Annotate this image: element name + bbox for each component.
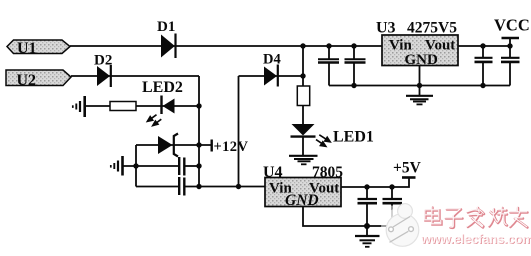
junction VCC terminal node [507,43,512,48]
junction C5 top on +5V net [364,184,369,189]
svg-text:4275V5: 4275V5 [407,20,457,37]
wire capacitor C5 bottom lead [366,204,368,226]
wire vertical x=238.5 from D4 anode down to U4 Vin net [238,76,240,187]
wire capacitor C2 bottom lead [353,64,355,86]
+12V terminal [212,139,249,155]
wire D4 anode branch y=76 [239,75,304,77]
capacitor C4 plates [501,58,520,62]
wire capacitor C3 top lead [482,46,484,57]
junction C2 bottom on ground rail [351,83,356,88]
junction C7 right on U2 bus [196,163,201,168]
diode D2 [94,53,112,88]
svg-text:www.elecfans.com: www.elecfans.com [420,232,531,247]
LED2 emission arrows [147,115,161,126]
VCC terminal [494,16,530,39]
wire LED1 cathode to ground [302,137,304,156]
capacitor C1 plates [318,59,339,62]
svg-text:D2: D2 [94,53,112,69]
LED1 emission arrows [316,135,330,147]
resistor R1 in LED2 branch [110,102,136,111]
ground symbol below U4 output rail [355,236,380,247]
wire U3 Vout to VCC node [458,45,510,47]
wire capacitor C4 bottom lead [509,63,511,86]
resistor R2 above LED1 [297,86,309,106]
junction C1 top [326,43,331,48]
wire ground rail y=85.5 under U3 [329,85,510,87]
capacitor C6 plates [383,199,403,203]
wire capacitor C1 top lead [328,46,330,59]
junction zener row on U2 bus [196,142,201,147]
ground symbol left of LED2 branch [73,96,85,117]
svg-text:+12V: +12V [214,139,249,155]
svg-text:GND: GND [285,192,319,209]
junction C2 top [351,43,356,48]
junction C7 left node [133,163,138,168]
junction C3 bottom on ground rail [480,83,485,88]
svg-text:GND: GND [405,52,439,68]
watermark badge circle [381,204,423,249]
wire capacitor C8 row to U4 Vin pin [185,186,266,188]
connector tag U2 [6,70,71,89]
capacitor C2 plates [345,59,366,62]
junction U2 bus at U4 Vin net [196,184,201,189]
wire vertical bus of U2 net x=199 [198,76,200,187]
svg-text:D4: D4 [263,52,281,68]
wire capacitor C3 bottom lead [482,63,484,86]
wire capacitor C6 bottom lead [391,204,393,226]
regulator U4 box [265,178,341,210]
junction U3 GND on ground rail [417,83,422,88]
svg-text:U4: U4 [263,164,283,181]
svg-text:U3: U3 [376,20,396,37]
svg-text:7805: 7805 [312,164,343,181]
wire U4 GND pin down and ground rail y=226 [303,207,392,227]
wire left vertical x=136 linking zener and capacitor rows [135,145,137,187]
wire VCC terminal stem [509,39,511,47]
wire U4 Vout row y=187 to +5V corner [341,178,409,187]
wire capacitor C5 top lead [366,187,368,198]
ground symbol below U3 GND [406,96,433,105]
diode D4 [263,52,281,87]
junction C3 top at VCC net [480,43,485,48]
capacitor C5 plates [358,199,378,203]
+5V terminal [393,160,422,178]
svg-text:D1: D1 [157,19,175,35]
ground symbol left of capacitor C7 row [111,156,123,176]
capacitor C3 plates [475,58,493,62]
svg-text:LED2: LED2 [142,79,183,96]
wire U1 top net from U1 tag to U3 Vin [70,45,382,47]
wire capacitor C8 row y=186.5 left segment [136,186,178,188]
wire capacitor C1 bottom lead [328,64,330,86]
wire capacitor C2 top lead [353,46,355,59]
wire LED2 branch row y=106 [85,105,199,107]
LED2 [142,79,183,114]
junction on U1 net at LED1 branch [300,43,305,48]
wire capacitor C7 row y=166 left segment from ground [123,165,178,167]
wire capacitor C4 top lead [509,46,511,57]
diode D1 [157,19,176,58]
wire capacitor C7 row y=166 right segment [185,165,200,167]
svg-text:U2: U2 [17,72,37,89]
regulator U3 box [382,35,458,68]
svg-text:+5V: +5V [393,160,422,177]
wire U3 GND pin stem to ground [419,66,421,96]
junction C6 top on +5V net [389,184,394,189]
svg-text:VCC: VCC [494,16,530,35]
wire zener branch row y=145 to +12V terminal [136,144,211,146]
wire vertical x=303 from U1 net through R2 to LED1 [302,46,304,124]
connector tag U1 [7,40,70,57]
junction D4 cathode node [300,73,305,78]
wire U2 net from U2 tag to vertical bus [71,75,199,77]
junction C5 bottom on output ground rail [364,223,370,229]
capacitor C8 plates (row y=186.5) [179,177,184,196]
ground symbol below LED1 [289,156,318,165]
junction LED2 anode on U2 bus [196,103,201,108]
svg-text:U1: U1 [17,40,37,57]
LED1 [291,124,374,146]
zener diode D3 [158,134,178,157]
svg-text:LED1: LED1 [333,129,374,146]
capacitor C7 plates (row y=166) [179,157,184,176]
wire capacitor C6 top lead [391,187,393,198]
wire ground stem below rail y=226 [366,226,368,236]
junction D4 branch at U4 Vin net [236,184,241,189]
